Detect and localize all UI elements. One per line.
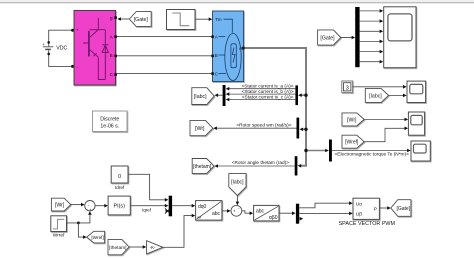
IGBT inverter block	[74, 11, 117, 86]
bus selector (torque)	[329, 140, 332, 162]
from tag [Iabc]	[365, 88, 388, 102]
wire Wrref -> sum1 + branch	[67, 211, 92, 239]
wire Iabc -> sum2	[236, 196, 240, 206]
svg-text:VDC: VDC	[56, 45, 67, 51]
svg-text:B: B	[215, 53, 218, 58]
svg-text:[thetam]: [thetam]	[109, 245, 126, 251]
goto tag [Iabc]	[192, 88, 214, 105]
svg-text:[Gate]: [Gate]	[134, 17, 149, 23]
svg-text:[Wref]: [Wref]	[345, 140, 359, 146]
DC voltage source VDC	[43, 43, 53, 54]
svg-text:+: +	[42, 42, 45, 47]
svg-text:[Wr]: [Wr]	[347, 117, 357, 123]
wire step->Tm	[195, 17, 212, 21]
svg-text:B: B	[110, 53, 113, 58]
svg-text:Uα: Uα	[356, 201, 362, 207]
from tag [Iabc] down	[229, 174, 246, 196]
gain -K-	[147, 241, 163, 254]
wire dq0abc -> sum2	[222, 209, 231, 213]
wire inverter C -> machine C	[117, 73, 211, 75]
third mux input stub	[165, 208, 170, 213]
wire inverter A -> machine A	[117, 36, 211, 38]
goto tag [Wr]	[190, 120, 213, 135]
scope pulses	[384, 7, 416, 68]
wire sum2 -> abc-ab0	[242, 211, 253, 215]
from tag [Wref] right	[342, 135, 364, 148]
constant 3	[342, 81, 353, 93]
svg-text:+: +	[233, 209, 236, 214]
svg-text:[Wref]: [Wref]	[91, 235, 103, 240]
step block Wrref	[51, 216, 67, 239]
svg-text:<Stator current is_b (A)>: <Stator current is_b (A)>	[241, 89, 293, 95]
wire gain -> dq0 wt input	[163, 214, 196, 248]
wire mux -> goto Iabc	[215, 93, 223, 97]
wire Wr -> sum1	[71, 203, 85, 207]
bus selector (rotor speed)	[297, 118, 300, 139]
svg-text:[thetam]: [thetam]	[193, 164, 212, 170]
constant 0 Idref	[111, 166, 128, 191]
svg-text:Tm: Tm	[215, 17, 222, 22]
SVPWM block	[339, 198, 396, 227]
svg-text:abc: abc	[212, 211, 221, 217]
goto tag [Gate] bottom	[391, 200, 411, 217]
wire Wref -> scope w	[364, 127, 408, 142]
svg-text:[Gate]: [Gate]	[320, 35, 335, 41]
wire VDC- to inverter -	[49, 54, 72, 67]
wire Iabc -> scope abc	[389, 94, 407, 98]
powergui Discrete block	[93, 111, 128, 132]
svg-text:Discrete: Discrete	[100, 117, 119, 123]
sum junction current	[231, 205, 242, 216]
from tag [thetam] bottom	[108, 239, 129, 254]
svg-text:P: P	[374, 206, 377, 212]
svg-text:<Electromagnetic torque Te (N*: <Electromagnetic torque Te (N*m)>	[335, 151, 410, 157]
PI controller block	[108, 196, 130, 215]
from tag [Gate] top-left	[129, 12, 151, 27]
wire Gate -> demux	[341, 36, 355, 40]
from tag [Wr] right	[342, 113, 364, 126]
asynchronous machine block	[211, 11, 245, 82]
svg-text:Idref: Idref	[115, 185, 125, 191]
from tag [Gate] top-right	[318, 30, 341, 45]
svg-text:<Stator current is_a (A)>: <Stator current is_a (A)>	[241, 84, 293, 90]
scope speed	[408, 112, 424, 135]
node inverter - port	[71, 65, 74, 68]
node inverter + port	[71, 29, 74, 32]
svg-text:<Rotor angle thetam (rad)>: <Rotor angle thetam (rad)>	[232, 160, 290, 166]
svg-text:+: +	[76, 28, 79, 33]
svg-text:Uβ: Uβ	[356, 212, 362, 218]
wire sum1 -> PI	[95, 204, 108, 208]
bus wire from machine m output	[245, 48, 329, 168]
dq0 to abc transform block	[196, 201, 222, 221]
wire inverter B -> machine B	[117, 55, 211, 57]
svg-text:[Iabc]: [Iabc]	[369, 93, 382, 99]
wire 3 -> scope abc	[353, 85, 407, 89]
abc to alpha-beta block	[254, 205, 279, 221]
wire rotor speed -> goto Wr	[213, 126, 296, 130]
svg-text:-K-: -K-	[150, 245, 156, 250]
step block (Tm source)	[167, 10, 196, 30]
svg-text:3: 3	[346, 86, 349, 92]
demux (gate pulses)	[355, 7, 359, 67]
svg-text:SPACE VECTOR PWM: SPACE VECTOR PWM	[339, 221, 396, 227]
goto tag [Wref] bottom	[87, 231, 105, 243]
sum junction speed error	[85, 201, 95, 213]
svg-text:[Iabc]: [Iabc]	[194, 94, 207, 100]
node VDC+ terminal	[47, 41, 50, 44]
mux (stator currents)	[223, 85, 226, 106]
bus selector (stator currents)	[295, 85, 298, 105]
svg-text:+: +	[89, 207, 92, 212]
wire Wr -> scope w	[364, 118, 408, 122]
mux dq0 ref	[169, 196, 172, 217]
from tag [Wr] bottom-left	[51, 198, 70, 211]
svg-text:0: 0	[118, 174, 121, 180]
wire Gate->g	[117, 17, 129, 21]
demux output wires	[360, 11, 380, 62]
wire demux -> Ualpha	[299, 201, 353, 207]
wire PI -> mux2 (tqref)	[130, 204, 168, 213]
stator current output wires	[229, 89, 296, 100]
svg-text:tqref: tqref	[142, 207, 152, 212]
demux third output stub	[300, 217, 304, 221]
bus selector (rotor angle)	[295, 156, 298, 175]
demux alpha beta	[296, 204, 299, 224]
wire rotor angle -> goto thetam	[214, 164, 294, 168]
svg-text:abc: abc	[256, 208, 265, 214]
wire Idref -> mux2	[128, 174, 168, 201]
svg-text:Wrref: Wrref	[53, 233, 65, 239]
svg-text:[Wr]: [Wr]	[195, 126, 205, 132]
svg-text:[Iabc]: [Iabc]	[231, 180, 244, 186]
node VDC- terminal	[47, 53, 50, 56]
svg-text:αβ0: αβ0	[269, 215, 278, 221]
wire SVPWM -> Gate goto	[379, 206, 390, 210]
svg-text:[Wr]: [Wr]	[55, 203, 65, 209]
goto tag [thetam]	[192, 159, 214, 174]
svg-text:<Stator current is_c (A)>: <Stator current is_c (A)>	[242, 95, 294, 101]
toolbar strip	[0, 0, 474, 2]
svg-text:g: g	[110, 15, 113, 20]
svg-text:1e-06 s.: 1e-06 s.	[100, 123, 119, 129]
svg-text:PI(s): PI(s)	[114, 204, 126, 210]
scope iabc	[407, 81, 426, 102]
wire mux2 -> dq0-abc	[172, 204, 195, 208]
scope Te	[411, 141, 430, 161]
svg-text:dq0: dq0	[198, 204, 207, 210]
svg-text:<Rotor speed wm (rad/s)>: <Rotor speed wm (rad/s)>	[236, 123, 291, 129]
wire VDC+ to inverter +	[49, 30, 72, 42]
wire thetam -> gain	[129, 245, 146, 249]
wire demux -> Ubeta	[299, 212, 353, 216]
wire abc-ab0 -> demux3	[279, 211, 296, 215]
svg-text:[Gate]: [Gate]	[396, 206, 410, 212]
wire torque -> scope4	[332, 149, 411, 153]
